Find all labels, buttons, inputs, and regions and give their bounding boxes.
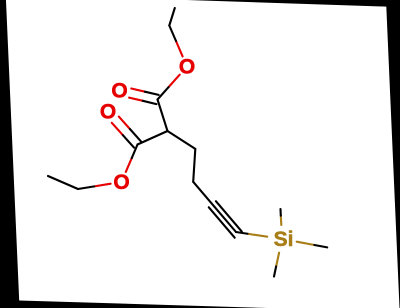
bond CH2b-Csp1 [193,182,214,207]
bond CH2a-CH2b [193,149,195,182]
bond O1-CH2 (ethyl) [176,41,183,56]
bond C1-Cq [158,100,168,132]
bond O2-C2 [126,158,132,172]
svg-text:O: O [111,80,127,103]
bond CH2-CH3 (left ethyl) [48,176,78,189]
bond Si-CH3 up [280,216,283,225]
svg-text:O: O [100,101,116,124]
double bond C2=O4 [112,123,123,135]
bond Cq-C2 [138,131,168,145]
triple bond Csp1#Csp2 [209,207,235,237]
svg-text:O: O [113,171,129,194]
bond Cq-CH2a [168,131,196,149]
bond Si-CH3 down [276,253,279,267]
double bond C1=O3 [129,98,143,101]
svg-text:Si: Si [274,228,294,251]
bond Si-CH3 right [297,242,315,245]
svg-text:O: O [179,56,195,79]
bond CH2-CH3 (top ethyl) [169,8,175,26]
bond Csp2-Si [236,232,249,234]
bond O1-C1 [169,75,180,87]
bond O2-CH2 (ethyl) [94,184,110,187]
